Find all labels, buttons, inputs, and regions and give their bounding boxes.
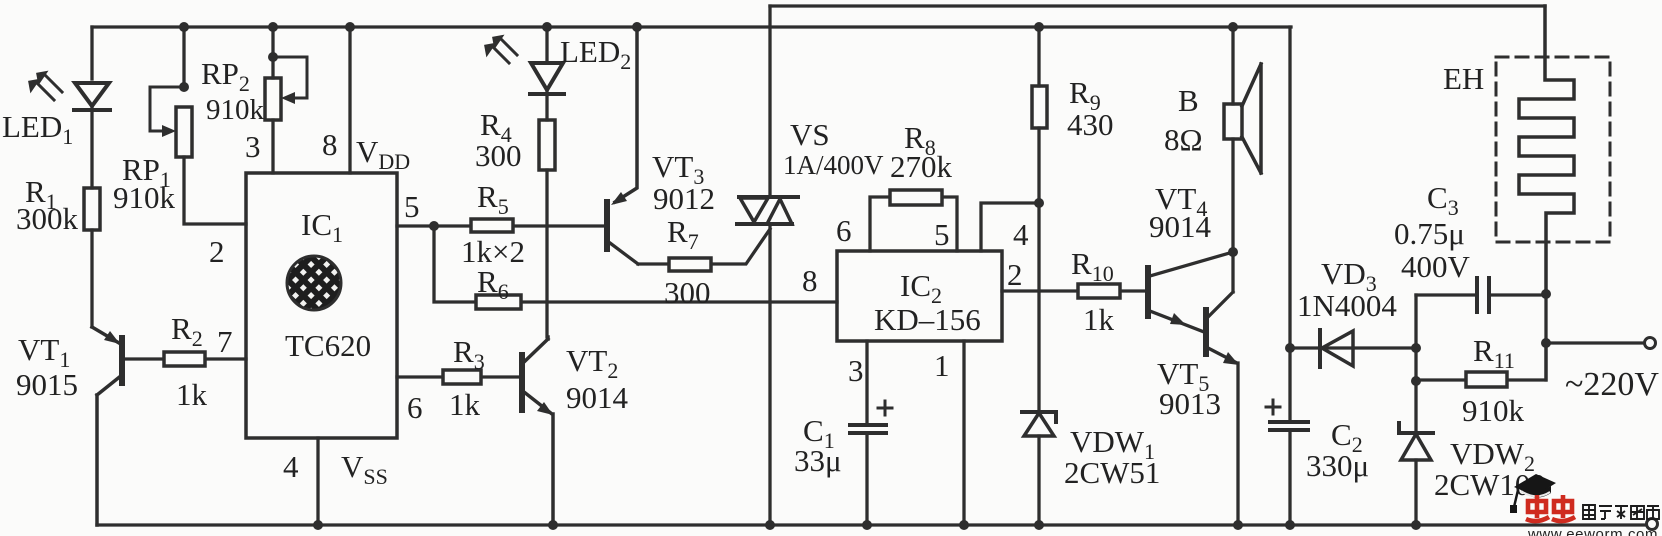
svg-text:9015: 9015 [16,367,78,402]
junction pin1 ground [959,520,969,530]
svg-text:910k: 910k [113,180,176,215]
resistor R5 [471,219,513,232]
watermark site name blocks [1583,505,1659,519]
wire left AC vertical [1414,295,1417,525]
wire AC terminal top [1546,341,1644,344]
svg-text:2: 2 [1007,257,1023,292]
C2 plus sign [1266,400,1280,414]
LED LED2 [530,63,564,94]
svg-text:VT1: VT1 [18,332,70,372]
svg-text:1A/400V: 1A/400V [783,150,884,180]
wire LED2 R4 branch [545,27,548,337]
svg-text:1k: 1k [176,377,208,412]
resistor R8 [890,190,942,205]
svg-text:R3: R3 [453,334,485,374]
capacitor C2 [1270,422,1308,430]
wire LED1 branch vertical [90,27,93,327]
junction R9 top rail [1034,22,1044,32]
wire R11 [1416,343,1546,380]
junction C2 ground [1285,520,1295,530]
wire RP2 branch [271,27,274,173]
svg-text:9014: 9014 [566,380,629,415]
resistor R6 [476,295,521,309]
junction triac ground [765,520,775,530]
svg-text:330μ: 330μ [1306,448,1369,483]
transistor VT5 (9013 NPN) [1203,310,1209,354]
wire IC1 pin7 with R2 [124,357,246,360]
svg-text:VDD: VDD [356,134,410,174]
IC U2 box KD-156 [837,251,1002,341]
svg-text:LED1: LED1 [2,109,73,149]
junction RP1 top [179,82,189,92]
wire IC2 pin3 to C1 [865,341,868,423]
capacitor C3 [1477,278,1489,312]
svg-text:300: 300 [475,138,522,173]
wire speaker branch [1231,27,1234,252]
junction speaker top rail [1228,22,1238,32]
svg-text:3: 3 [848,353,864,388]
svg-text:R7: R7 [667,214,699,254]
resistor R3 [443,370,481,384]
wire C2 branch from rail1 [1288,27,1291,525]
svg-text:8Ω: 8Ω [1164,122,1203,157]
heater EH dashed box [1496,57,1610,242]
triac VS symbol [737,197,798,224]
heater EH element [1519,6,1574,294]
svg-text:2CW51: 2CW51 [1064,455,1160,490]
svg-text:8: 8 [322,127,338,162]
C1 plus sign [878,401,892,415]
svg-text:LED2: LED2 [560,34,631,74]
svg-text:33μ: 33μ [794,443,842,478]
svg-text:RP2: RP2 [201,56,250,96]
wire IC2 pin4 to R9 node [981,203,1039,251]
resistor R4 [539,120,555,170]
junction R11 left node [1411,376,1421,386]
svg-text:9012: 9012 [653,181,715,216]
wire IC1 pin8 VDD [348,27,351,173]
svg-text:R2: R2 [171,311,203,351]
svg-text:2: 2 [209,234,225,269]
transistor VT2 (9014 NPN) [519,355,525,410]
svg-text:~220V: ~220V [1565,366,1659,403]
resistor R9 [1032,86,1047,128]
svg-text:8: 8 [802,263,818,298]
svg-text:KD–156: KD–156 [874,302,981,337]
terminal circle AC top [1645,338,1656,349]
svg-text:EH: EH [1443,61,1484,96]
junction VD3 right node [1411,343,1421,353]
diode VD3 (1N4004) [1318,330,1322,367]
svg-text:3: 3 [245,129,261,164]
LED LED1 [74,83,110,110]
resistor R7 [669,258,711,271]
zener VDW1 [1022,412,1056,422]
svg-text:7: 7 [217,324,233,359]
junction C2 top VD3 [1285,343,1295,353]
junction VDW2 ground [1411,520,1421,530]
junction VDW1 ground [1034,520,1044,530]
svg-text:www.eeworm.com: www.eeworm.com [1527,526,1658,536]
transistor VT3 (9012 PNP) [615,27,637,202]
wire R9 branch [1037,27,1040,412]
wire EH to AC node [1544,294,1547,380]
wire top rail 1 [92,25,1291,28]
svg-text:TC620: TC620 [285,328,371,363]
junction rail dots mid [542,22,552,32]
resistor R2 [164,352,205,366]
triac VS main line [768,6,771,525]
svg-text:VT2: VT2 [566,343,618,383]
svg-text:C3: C3 [1427,180,1459,220]
svg-text:6: 6 [836,213,852,248]
junction VT4 VT5 collectors [1228,247,1238,257]
svg-text:430: 430 [1067,107,1114,142]
wire IC2 pin2 to VT4 base with R10 [1002,289,1146,292]
svg-text:6: 6 [407,390,423,425]
terminal circle AC bottom [1647,519,1658,530]
resistor R11 [1466,372,1507,387]
svg-text:400V: 400V [1401,249,1471,284]
junction pin5 node [429,221,439,231]
LED2 light arrows [492,38,517,63]
junction VT2 emitter ground [548,520,558,530]
speaker B [1224,104,1242,139]
svg-text:5: 5 [404,189,420,224]
capacitor C1 [850,425,886,433]
junction VT5 emitter ground [1233,520,1243,530]
wire top rail 2 [770,4,1545,7]
IC U1 box TC620 [246,173,397,438]
wire IC1 pin4 to ground [316,438,319,525]
svg-text:4: 4 [283,449,299,484]
wire IC1 pin5 to VT3 base [397,224,604,227]
svg-text:300: 300 [664,275,711,310]
wire IC2 pin1 to ground [962,341,965,525]
svg-text:R10: R10 [1071,246,1114,286]
wire R8 loop pins 6 and 5 [870,197,957,251]
LED1 light arrows [36,74,62,100]
wire VD3 [1290,346,1416,349]
svg-text:910k: 910k [206,94,265,126]
junction RP2 top [268,52,278,62]
wire bottom ground rail [97,523,1646,526]
watermark chongchong red characters [1526,495,1575,521]
wire RP1 branch [184,27,246,224]
svg-text:0.75μ: 0.75μ [1394,216,1465,251]
transistor VT4 (9014 NPN) [1145,268,1151,316]
svg-text:9014: 9014 [1149,209,1212,244]
svg-text:R5: R5 [477,179,509,219]
junction rail dots left [179,22,189,32]
wire C3 [1416,293,1546,296]
svg-text:300k: 300k [16,201,79,236]
svg-text:IC1: IC1 [301,207,343,247]
resistor R1 [84,188,100,230]
potentiometer RP1 [176,107,192,157]
svg-text:R6: R6 [477,264,509,304]
svg-text:R11: R11 [1473,333,1515,373]
junction EH C3 node [1541,289,1551,299]
svg-text:VS: VS [790,117,830,152]
svg-text:B: B [1178,83,1199,118]
zener VDW2 [1399,423,1433,433]
svg-text:9013: 9013 [1159,386,1221,421]
svg-text:270k: 270k [890,149,953,184]
junction R9 bottom node [1034,198,1044,208]
IC1 sensor circle [287,256,341,310]
svg-text:5: 5 [934,217,950,252]
svg-text:4: 4 [1013,217,1029,252]
junction pin4 ground [313,520,323,530]
junction C1 ground [862,520,872,530]
svg-text:910k: 910k [1462,393,1525,428]
wire IC1 pin6 to VT2 base with R3 [397,375,520,378]
junction 220V node [1541,338,1551,348]
watermark graduation cap [1510,474,1556,513]
potentiometer RP2 [265,78,281,120]
svg-text:1k: 1k [1083,302,1115,337]
wire R7 to triac gate [638,229,770,264]
resistor R10 [1078,284,1120,298]
svg-text:VSS: VSS [341,449,388,489]
svg-text:1k: 1k [449,387,481,422]
transistor VT1 (9015 PNP) [92,327,119,343]
wire R6 branch to IC2 pin8 [434,226,837,302]
svg-text:1N4004: 1N4004 [1297,288,1397,323]
svg-text:1: 1 [934,348,950,383]
